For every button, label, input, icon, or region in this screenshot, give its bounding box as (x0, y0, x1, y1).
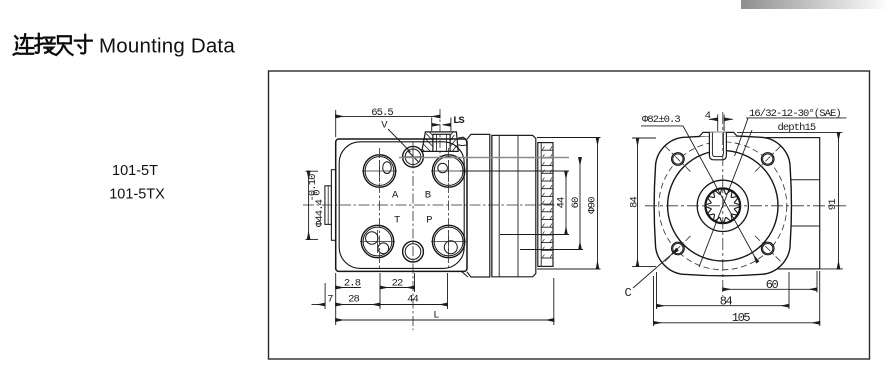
svg-text:60: 60 (766, 278, 779, 292)
svg-text:P: P (426, 215, 432, 227)
svg-text:V: V (381, 120, 388, 132)
svg-text:101-5T: 101-5T (112, 163, 158, 179)
svg-text:Φ82±0.3: Φ82±0.3 (642, 114, 680, 126)
svg-text:91: 91 (827, 199, 839, 210)
svg-text:2.8: 2.8 (344, 277, 361, 289)
svg-text:101-5TX: 101-5TX (109, 187, 165, 203)
svg-text:LS: LS (453, 115, 464, 127)
svg-text:28: 28 (348, 294, 359, 306)
svg-text:105: 105 (732, 311, 751, 325)
svg-text:4: 4 (705, 110, 711, 122)
svg-text:65.5: 65.5 (371, 107, 393, 119)
svg-text:44: 44 (407, 294, 418, 306)
svg-text:Φ90: Φ90 (587, 197, 599, 214)
svg-text:60: 60 (570, 197, 582, 208)
svg-text:B: B (425, 190, 431, 202)
svg-text:44: 44 (556, 197, 568, 208)
svg-text:T: T (394, 215, 400, 227)
svg-text:C: C (625, 286, 632, 300)
svg-text:Mounting Data: Mounting Data (99, 35, 235, 58)
svg-text:7: 7 (327, 294, 333, 306)
svg-text:L: L (433, 310, 439, 322)
svg-text:Φ44.4: Φ44.4 (314, 199, 326, 227)
svg-text:-0.10: -0.10 (307, 174, 319, 202)
svg-text:22: 22 (392, 277, 403, 289)
svg-text:84: 84 (628, 197, 640, 208)
svg-text:A: A (392, 190, 399, 202)
svg-text:84: 84 (720, 294, 733, 308)
